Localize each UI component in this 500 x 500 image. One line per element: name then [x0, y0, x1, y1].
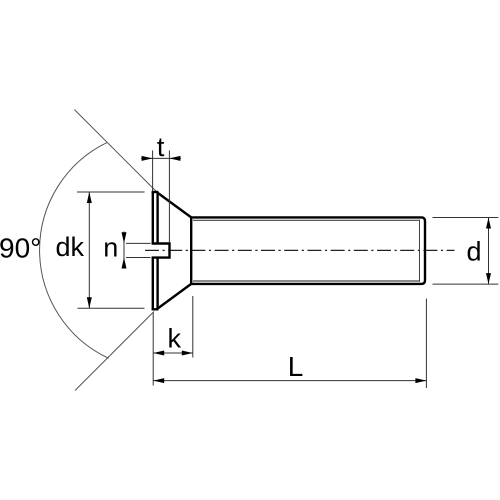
dimension L arrow right	[415, 378, 426, 383]
dimension n arrow top	[122, 232, 127, 243]
dimension L arrow left	[153, 378, 164, 383]
end chamfer line	[419, 220, 421, 282]
head cone upper edge	[158, 193, 192, 218]
dimension d line	[488, 218, 490, 285]
thread minor line bottom	[193, 280, 420, 282]
dimension dk extension line bottom	[78, 307, 145, 309]
construction line upper 45deg	[74, 110, 157, 193]
thread minor line top	[193, 219, 420, 221]
head cone lower edge	[158, 284, 192, 309]
dimension k arrow left	[153, 351, 164, 356]
dimension t line	[141, 157, 181, 159]
dimension n line	[123, 232, 125, 269]
dimension n arrow bottom	[122, 258, 127, 269]
svg-text:L: L	[288, 351, 304, 382]
dimension t arrow left	[142, 156, 153, 161]
svg-text:d: d	[466, 236, 481, 266]
dimension k extension line right	[192, 296, 194, 358]
screw head face outer line lower	[152, 258, 154, 310]
dimension t extension line right	[168, 150, 170, 243]
construction line lower 45deg	[75, 312, 154, 391]
dimension d arrow top	[486, 218, 491, 229]
screw head bottom edge	[152, 308, 159, 310]
dimension t extension line left	[152, 150, 154, 191]
dimension n extension line top	[126, 242, 151, 244]
centerline (axis)	[145, 249, 455, 251]
angle arc 90deg	[40, 142, 109, 358]
dimension dk arrow top	[87, 192, 92, 203]
slot notch	[152, 244, 170, 258]
svg-text:dk: dk	[55, 232, 84, 262]
dimension d extension line top	[433, 217, 499, 219]
dimension t arrow right	[169, 156, 180, 161]
dimension dk line	[88, 192, 90, 308]
dimension dk extension line top	[77, 191, 145, 193]
dimension d arrow bottom	[486, 273, 491, 284]
svg-text:k: k	[167, 324, 181, 354]
screw head face outer line upper	[152, 192, 154, 244]
screw head top edge	[152, 191, 159, 193]
dimension k arrow right	[182, 351, 193, 356]
dimension L extension line right	[425, 299, 427, 388]
dimension L line	[153, 380, 426, 382]
head-shank junction line	[190, 217, 192, 284]
svg-text:n: n	[103, 233, 118, 263]
svg-text:t: t	[157, 132, 165, 162]
screw head face inner line upper	[156, 193, 158, 244]
dimension d extension line bottom	[433, 283, 499, 285]
dimension L extension line left	[152, 313, 154, 386]
dimension k line	[153, 352, 193, 354]
dimension dk arrow bottom	[87, 297, 92, 308]
svg-text:90°: 90°	[0, 233, 41, 264]
shank outline	[191, 217, 425, 284]
screw head face inner line lower	[156, 258, 158, 309]
dimension n extension line bottom	[126, 257, 151, 259]
